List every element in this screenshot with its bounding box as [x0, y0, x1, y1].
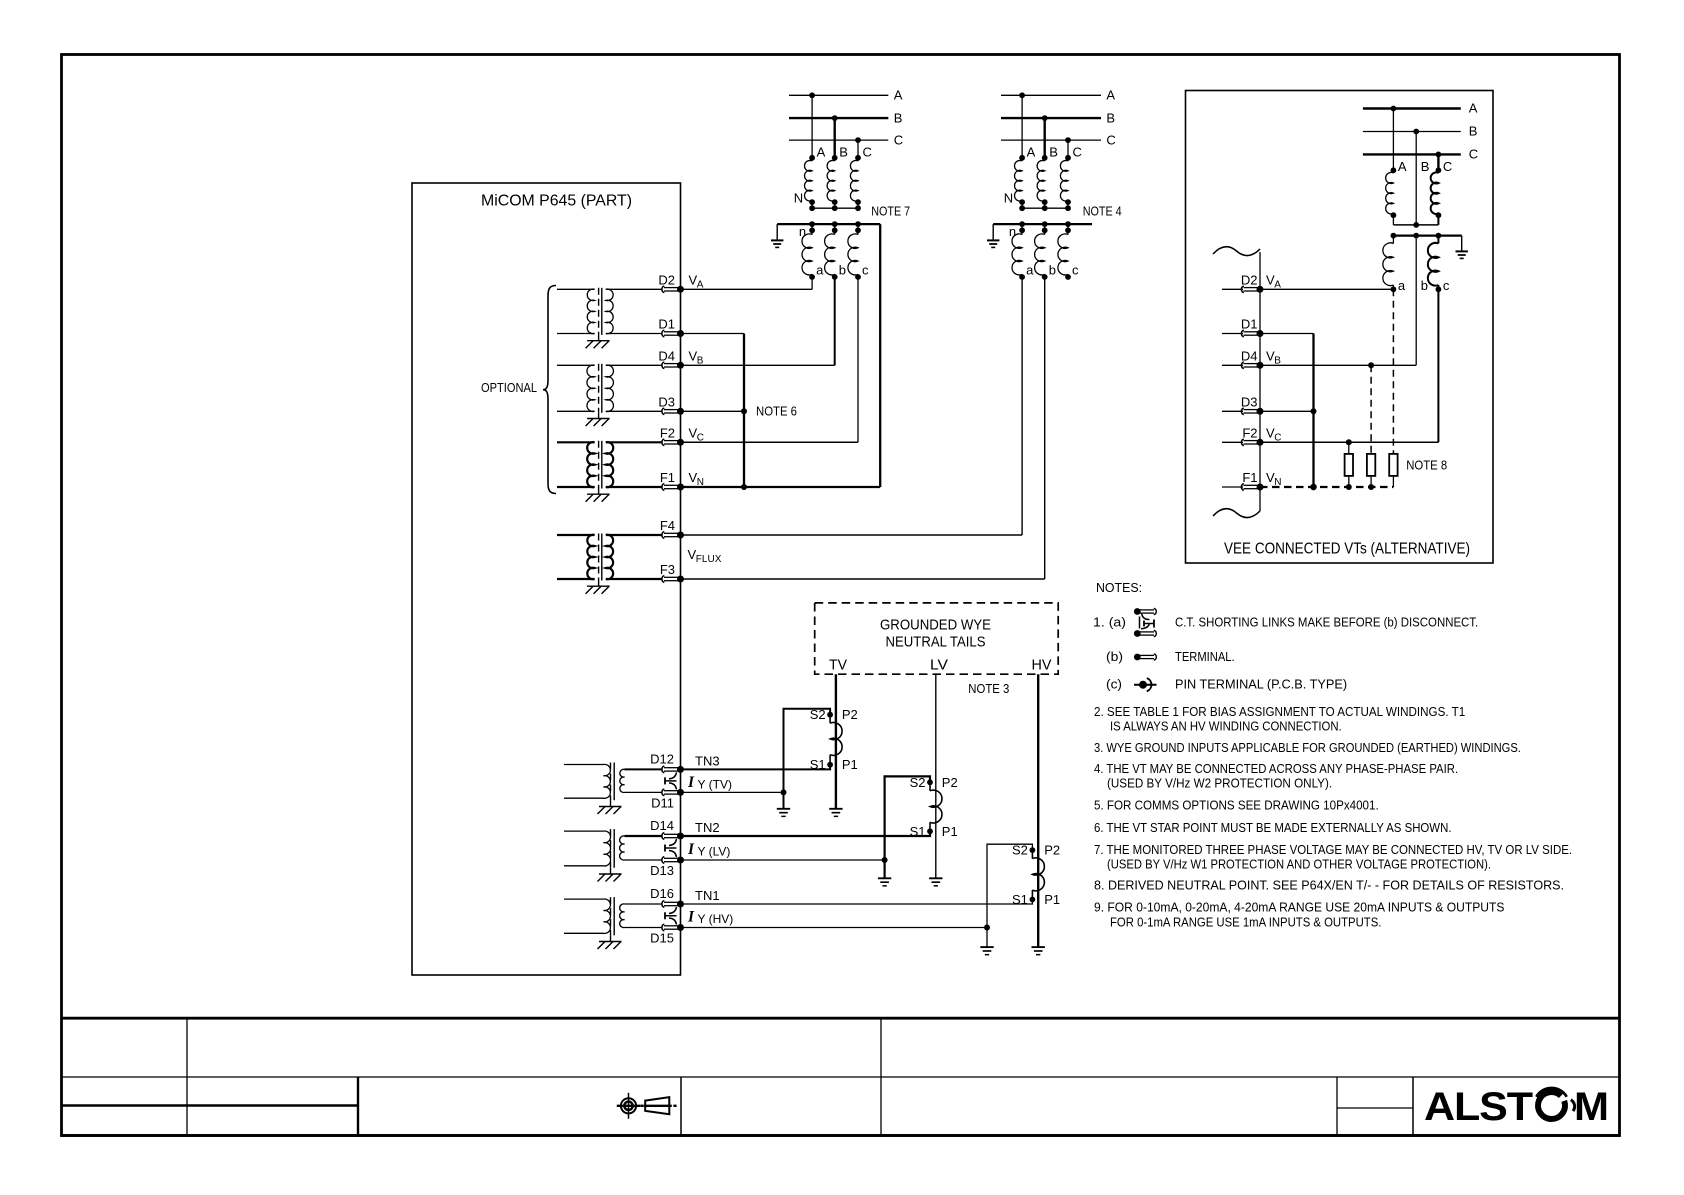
terminal F2: [660, 426, 684, 446]
svg-text:A: A: [1027, 145, 1036, 160]
VEE relay edge with break marks: [1213, 247, 1260, 518]
note 8: [1094, 878, 1564, 893]
svg-text:MiCOM P645 (PART): MiCOM P645 (PART): [481, 193, 632, 210]
wire VB net (D4 to VT1 phase b): [681, 277, 835, 365]
VT secondary winding phase b: [825, 224, 846, 280]
VEE primary bottom bar: [1393, 222, 1438, 228]
wire D1 net (D1 to star point): [681, 334, 748, 491]
bus A: [1001, 88, 1115, 103]
label VFLUX: [688, 547, 722, 565]
wire S2 bracket TV: [781, 709, 831, 809]
svg-text:C: C: [1073, 145, 1082, 160]
wire tap phase C: [855, 137, 861, 158]
wire VA net (D2 to VT1 phase a): [681, 277, 813, 289]
svg-text:NOTE 6: NOTE 6: [756, 404, 797, 419]
transformer T5 (IY TV input): [564, 763, 663, 807]
note 3: [1094, 740, 1521, 755]
svg-text:P1: P1: [842, 757, 858, 772]
svg-text:P2: P2: [842, 707, 858, 722]
svg-text:5. FOR COMMS OPTIONS SEE DRAW: 5. FOR COMMS OPTIONS SEE DRAWING 10Px400…: [1094, 797, 1379, 812]
VEE dashed wire a to VN (derived neutral): [1392, 289, 1394, 454]
svg-text:NOTE 8: NOTE 8: [1406, 458, 1447, 473]
svg-text:TV: TV: [829, 657, 847, 674]
wire to earth: [992, 224, 994, 239]
ground (earth) TV secondary: [777, 809, 790, 817]
CT shorting link D14/D13: [665, 839, 677, 857]
svg-text:FLUX: FLUX: [696, 554, 722, 565]
label VN: [689, 470, 705, 488]
VEE primary winding A: [1386, 159, 1407, 225]
label NOTE 6: [756, 404, 797, 419]
terminal D1: [658, 317, 684, 338]
CT TV secondary winding: [827, 712, 842, 768]
node N primary star bar: [1004, 190, 1071, 211]
svg-text:GROUNDED WYE: GROUNDED WYE: [880, 617, 991, 634]
note 6: [1094, 820, 1452, 835]
wire tap phase A: [1019, 92, 1025, 157]
svg-text:F2: F2: [660, 426, 675, 441]
VEE bus C: [1363, 147, 1478, 162]
wire D3 net (D3 to NOTE 6 junction): [681, 410, 745, 412]
secondary neutral bar n: [777, 221, 880, 239]
VT secondary winding phase b: [1035, 224, 1056, 280]
VT secondary winding phase c: [1058, 224, 1079, 280]
svg-text:D15: D15: [650, 931, 674, 946]
svg-text:P2: P2: [1044, 843, 1060, 858]
svg-text:D2: D2: [1241, 273, 1258, 288]
VT group 1 (NOTE 7): [771, 88, 910, 280]
bus B: [789, 110, 902, 125]
ground (chassis) T5: [598, 807, 622, 815]
VT primary winding phase A: [1015, 145, 1036, 209]
label NOTE 3: [968, 681, 1009, 696]
label S1 TV: [810, 757, 826, 772]
svg-text:4. THE VT MAY BE CONNECTED ACR: 4. THE VT MAY BE CONNECTED ACROSS ANY PH…: [1094, 761, 1458, 776]
transformer T2 (VB input): [557, 364, 663, 419]
title block grid: [61, 1018, 1620, 1135]
svg-text:D16: D16: [650, 886, 674, 901]
label IY (HV): [687, 909, 733, 927]
svg-text:B: B: [894, 110, 903, 125]
terminal D11: [651, 789, 684, 811]
svg-text:N: N: [794, 190, 803, 205]
note 1b with terminal symbol: [1106, 649, 1235, 664]
VEE terminal D3: [1222, 395, 1264, 415]
ground (earth) HV secondary: [980, 947, 993, 955]
svg-text:VEE CONNECTED VTs (ALTERNATIVE: VEE CONNECTED VTs (ALTERNATIVE): [1224, 541, 1470, 558]
svg-text:S1: S1: [1012, 892, 1028, 907]
label VC: [689, 426, 705, 444]
note 2: [1094, 704, 1465, 734]
svg-text:(c): (c): [1106, 677, 1122, 692]
svg-text:B: B: [1049, 145, 1058, 160]
ground (chassis) T1: [586, 341, 610, 349]
CT TV primary wire: [835, 674, 837, 809]
label S1 LV: [910, 824, 926, 839]
label P2 LV: [942, 775, 958, 790]
CT HV secondary winding: [1030, 847, 1045, 902]
transformer T1 (VA input): [557, 288, 663, 341]
svg-text:TERMINAL.: TERMINAL.: [1175, 649, 1235, 664]
VT secondary winding phase a: [802, 224, 824, 280]
svg-text:D14: D14: [650, 818, 674, 833]
svg-text:I: I: [687, 909, 695, 926]
VEE wire VA to a: [1260, 288, 1393, 290]
terminal D15: [650, 924, 684, 946]
svg-text:B: B: [1106, 110, 1115, 125]
note 1a with CT shorting links symbol: [1093, 608, 1478, 637]
svg-text:n: n: [799, 224, 806, 239]
transformer T4 (VFLUX input): [557, 534, 663, 587]
label P2 TV: [842, 707, 858, 722]
label S2 HV: [1012, 843, 1028, 858]
wire tap phase A: [809, 92, 815, 157]
VEE dashed wire VB junction to resistor R2: [1370, 365, 1372, 454]
wire VN net (F1 to VT1 star point): [681, 224, 881, 487]
VEE secondary winding a: [1383, 236, 1406, 293]
ground (chassis) T2: [586, 419, 610, 427]
svg-text:b: b: [1421, 278, 1428, 293]
CT LV primary wire: [935, 674, 937, 878]
terminal D4: [658, 349, 684, 369]
label VB: [689, 349, 704, 367]
OPTIONAL brace: [481, 286, 556, 494]
svg-text:NOTE 4: NOTE 4: [1083, 204, 1122, 219]
svg-text:7. THE MONITORED THREE PHASE V: 7. THE MONITORED THREE PHASE VOLTAGE MAY…: [1094, 842, 1572, 857]
ground (earth): [987, 240, 999, 247]
svg-text:F1: F1: [1242, 470, 1257, 485]
ground (chassis) T7: [598, 942, 622, 950]
svg-text:NOTES:: NOTES:: [1096, 580, 1142, 595]
note 9: [1094, 900, 1505, 930]
svg-text:B: B: [1469, 124, 1478, 139]
svg-text:N: N: [1004, 190, 1013, 205]
NOTE 7: [871, 204, 910, 219]
CT HV primary wire: [1037, 674, 1039, 947]
terminal D2: [658, 273, 684, 293]
resistor R1: [1345, 454, 1353, 487]
ALSTOM logo: [1424, 1085, 1609, 1129]
svg-text:B: B: [839, 145, 848, 160]
svg-text:TN2: TN2: [695, 820, 720, 835]
svg-text:n: n: [1009, 224, 1016, 239]
ground (chassis) T6: [598, 874, 622, 882]
GROUNDED WYE NEUTRAL TAILS box: [815, 603, 1058, 674]
note 1c with pin terminal symbol: [1106, 677, 1347, 692]
svg-text:D12: D12: [650, 752, 674, 767]
bus C: [789, 133, 903, 148]
svg-text:D1: D1: [658, 317, 675, 332]
label S2 TV: [810, 707, 826, 722]
svg-text:D2: D2: [658, 273, 675, 288]
svg-text:F1: F1: [660, 470, 675, 485]
wire S2 bracket HV: [984, 844, 1032, 947]
svg-text:D1: D1: [1241, 317, 1258, 332]
label IY (LV): [687, 841, 730, 859]
svg-text:a: a: [1026, 263, 1034, 278]
svg-text:LV: LV: [930, 657, 948, 674]
wire TN net LV: [681, 831, 931, 836]
VEE primary winding C: [1431, 159, 1453, 225]
svg-text:TN1: TN1: [695, 888, 720, 903]
ground (chassis) T4: [586, 586, 610, 594]
VEE dashed wire VN (derived neutral): [1260, 484, 1393, 490]
svg-text:NOTE 3: NOTE 3: [968, 681, 1009, 696]
label P1 TV: [842, 757, 858, 772]
label VA: [689, 273, 704, 291]
svg-text:TN3: TN3: [695, 754, 720, 769]
ground (earth) LV secondary: [878, 878, 891, 886]
svg-text:D4: D4: [658, 349, 675, 364]
VEE tap C: [1436, 152, 1442, 171]
wire F3 net (F3 to VT2 phase b): [681, 277, 1045, 579]
terminal F3: [660, 562, 684, 583]
VEE wire D3: [1260, 410, 1314, 412]
svg-text:C: C: [1106, 133, 1115, 148]
label HV: [1032, 657, 1052, 674]
svg-text:P1: P1: [942, 824, 958, 839]
svg-text:A: A: [1106, 88, 1115, 103]
svg-text:ALST: ALST: [1424, 1085, 1533, 1129]
svg-text:NEUTRAL TAILS: NEUTRAL TAILS: [886, 634, 986, 651]
svg-text:I: I: [687, 774, 695, 791]
VT primary winding phase C: [850, 145, 871, 209]
svg-text:C: C: [894, 133, 903, 148]
NOTES heading: [1096, 580, 1142, 595]
wire TN net TV: [681, 765, 831, 770]
VEE wire D1 bracket: [1260, 334, 1317, 491]
VEE secondary winding c: [1428, 236, 1450, 293]
wire TN net HV: [681, 900, 1033, 905]
svg-text:3. WYE GROUND INPUTS APPLICABL: 3. WYE GROUND INPUTS APPLICABLE FOR GROU…: [1094, 740, 1521, 755]
svg-text:D13: D13: [650, 863, 674, 878]
svg-text:C: C: [863, 145, 872, 160]
VEE terminal F2: [1222, 426, 1282, 446]
svg-text:(b): (b): [1106, 649, 1123, 664]
svg-text:(USED BY V/Hz W2 PROTECTION ON: (USED BY V/Hz W2 PROTECTION ONLY).: [1107, 775, 1332, 790]
VEE terminal D1: [1222, 317, 1264, 338]
MiCOM P645 relay box: [412, 183, 681, 975]
svg-text:c: c: [862, 263, 869, 278]
svg-text:Y (LV): Y (LV): [698, 845, 731, 859]
svg-text:HV: HV: [1032, 657, 1052, 674]
svg-text:D3: D3: [1241, 395, 1258, 410]
terminal D12: [650, 752, 684, 773]
svg-text:PIN TERMINAL (P.C.B. TYPE): PIN TERMINAL (P.C.B. TYPE): [1175, 677, 1347, 692]
label TN1: [695, 888, 720, 903]
ground (earth): [771, 240, 783, 247]
svg-text:A: A: [1469, 101, 1478, 116]
VEE secondary bar: [1391, 233, 1462, 239]
svg-text:P2: P2: [942, 775, 958, 790]
VEE wire b: [1416, 236, 1428, 366]
CT shorting link D12/D11: [665, 772, 677, 789]
VT primary winding phase C: [1060, 145, 1081, 209]
svg-text:A: A: [894, 88, 903, 103]
svg-text:B: B: [1421, 159, 1430, 174]
svg-text:I: I: [687, 841, 695, 858]
svg-text:1. (a): 1. (a): [1093, 614, 1126, 629]
terminal F4: [660, 518, 684, 539]
resistor R3: [1389, 454, 1397, 487]
label LV: [930, 657, 948, 674]
svg-text:NOTE 7: NOTE 7: [871, 204, 910, 219]
VEE bus B: [1363, 124, 1478, 139]
label P1 LV: [942, 824, 958, 839]
VT primary winding phase A: [805, 145, 826, 209]
svg-text:2. SEE TABLE 1 FOR BIAS ASSIG: 2. SEE TABLE 1 FOR BIAS ASSIGNMENT TO AC…: [1094, 704, 1465, 719]
ground (earth) TV primary: [829, 809, 842, 817]
VEE bus A: [1363, 101, 1478, 116]
VEE wire VB to b: [1260, 362, 1416, 368]
ground (earth) LV primary: [929, 878, 942, 886]
svg-text:C: C: [1443, 159, 1452, 174]
VT primary winding phase B: [1037, 145, 1058, 209]
note 7: [1094, 842, 1572, 871]
ground (chassis) T3: [586, 494, 610, 502]
svg-text:D4: D4: [1241, 349, 1258, 364]
VEE CONNECTED VTs box: [1186, 91, 1494, 564]
svg-text:6. THE VT STAR POINT MUST BE M: 6. THE VT STAR POINT MUST BE MADE EXTERN…: [1094, 820, 1452, 835]
VEE terminal D4: [1222, 349, 1281, 369]
transformer T3 (VC input): [557, 441, 663, 494]
svg-text:a: a: [1398, 278, 1406, 293]
wire IY return HV: [681, 927, 988, 929]
svg-text:C.T. SHORTING LINKS MAKE BEFOR: C.T. SHORTING LINKS MAKE BEFORE (b) DISC…: [1175, 614, 1478, 629]
note 4: [1094, 761, 1458, 790]
svg-text:b: b: [1049, 263, 1056, 278]
node N primary star bar: [794, 190, 861, 211]
VT group 2 (NOTE 4): [987, 88, 1122, 280]
bus A: [789, 88, 903, 103]
VEE wire VC junction to resistor R1: [1348, 442, 1350, 454]
wire IY return LV: [681, 859, 885, 861]
VEE terminal D2: [1222, 273, 1281, 293]
projection symbol: [617, 1093, 677, 1119]
VEE wire VC to c: [1260, 289, 1438, 445]
VT secondary winding phase c: [848, 224, 869, 280]
svg-text:FOR 0-1mA RANGE USE 1mA INPUTS: FOR 0-1mA RANGE USE 1mA INPUTS & OUTPUTS…: [1110, 914, 1381, 929]
svg-text:IS ALWAYS AN HV WINDING CONNEC: IS ALWAYS AN HV WINDING CONNECTION.: [1110, 719, 1342, 734]
label IY (TV): [687, 774, 732, 792]
svg-text:c: c: [1072, 263, 1079, 278]
label S1 HV: [1012, 892, 1028, 907]
note 5: [1094, 797, 1379, 812]
svg-text:8. DERIVED NEUTRAL POINT. SE: 8. DERIVED NEUTRAL POINT. SEE P64X/EN T/…: [1094, 878, 1564, 893]
svg-text:C: C: [1469, 147, 1478, 162]
svg-text:F3: F3: [660, 562, 675, 577]
VEE tap B: [1413, 129, 1419, 225]
wire to earth: [776, 224, 778, 239]
svg-text:Y (TV): Y (TV): [698, 778, 732, 792]
label TV: [829, 657, 847, 674]
ground (earth) VEE: [1456, 251, 1468, 258]
svg-text:F2: F2: [1242, 426, 1257, 441]
svg-text:P1: P1: [1044, 892, 1060, 907]
svg-text:A: A: [817, 145, 826, 160]
VEE tap A: [1391, 106, 1397, 171]
label B (VEE middle): [1421, 159, 1430, 174]
svg-text:OPTIONAL: OPTIONAL: [481, 380, 537, 395]
label P1 HV: [1044, 892, 1060, 907]
terminal F1: [660, 470, 684, 491]
VEE terminal F1: [1222, 470, 1282, 491]
ground (earth) HV primary: [1032, 947, 1045, 955]
CT LV secondary winding: [927, 779, 942, 834]
svg-text:D11: D11: [651, 796, 674, 811]
bus C: [1001, 133, 1116, 148]
transformer T6 (IY LV input): [564, 829, 663, 874]
wire F4 net (F4 to VT2 phase a): [681, 277, 1023, 535]
label NOTE 8: [1406, 458, 1447, 473]
VT primary winding phase B: [827, 145, 848, 209]
wire VC net (F2 to VT1 phase c): [681, 277, 859, 442]
svg-text:D3: D3: [658, 395, 675, 410]
svg-text:F4: F4: [660, 518, 675, 533]
svg-text:Y (HV): Y (HV): [698, 912, 734, 926]
terminal D3: [658, 395, 684, 415]
wire tap phase B: [832, 115, 838, 158]
svg-text:(USED BY V/Hz W1 PROTECTION AN: (USED BY V/Hz W1 PROTECTION AND OTHER VO…: [1107, 856, 1491, 871]
CT shorting link D16/D15: [665, 907, 677, 925]
svg-text:c: c: [1443, 278, 1450, 293]
label P2 HV: [1044, 843, 1060, 858]
terminal D13: [650, 857, 684, 879]
terminal D14: [650, 818, 684, 840]
svg-text:M: M: [1574, 1085, 1609, 1129]
wire IY return TV: [681, 791, 784, 793]
wire to earth (VEE): [1461, 236, 1463, 251]
label TN3: [695, 754, 720, 769]
NOTE 4: [1083, 204, 1122, 219]
wire tap phase B: [1042, 115, 1048, 158]
wire tap phase C: [1065, 137, 1071, 158]
svg-text:A: A: [1398, 159, 1407, 174]
label TN2: [695, 820, 720, 835]
secondary neutral bar n: [993, 221, 1092, 239]
svg-text:a: a: [816, 263, 824, 278]
bus B: [1001, 110, 1115, 125]
terminal D16: [650, 886, 684, 908]
transformer T7 (IY HV input): [564, 897, 663, 941]
label S2 LV: [910, 775, 926, 790]
VT secondary winding phase a: [1012, 224, 1034, 280]
resistor R2: [1367, 454, 1375, 487]
svg-text:b: b: [839, 263, 846, 278]
svg-text:9. FOR 0-10mA, 0-20mA, 4-20mA: 9. FOR 0-10mA, 0-20mA, 4-20mA RANGE USE …: [1094, 900, 1505, 915]
wire S2 bracket LV: [882, 776, 930, 878]
